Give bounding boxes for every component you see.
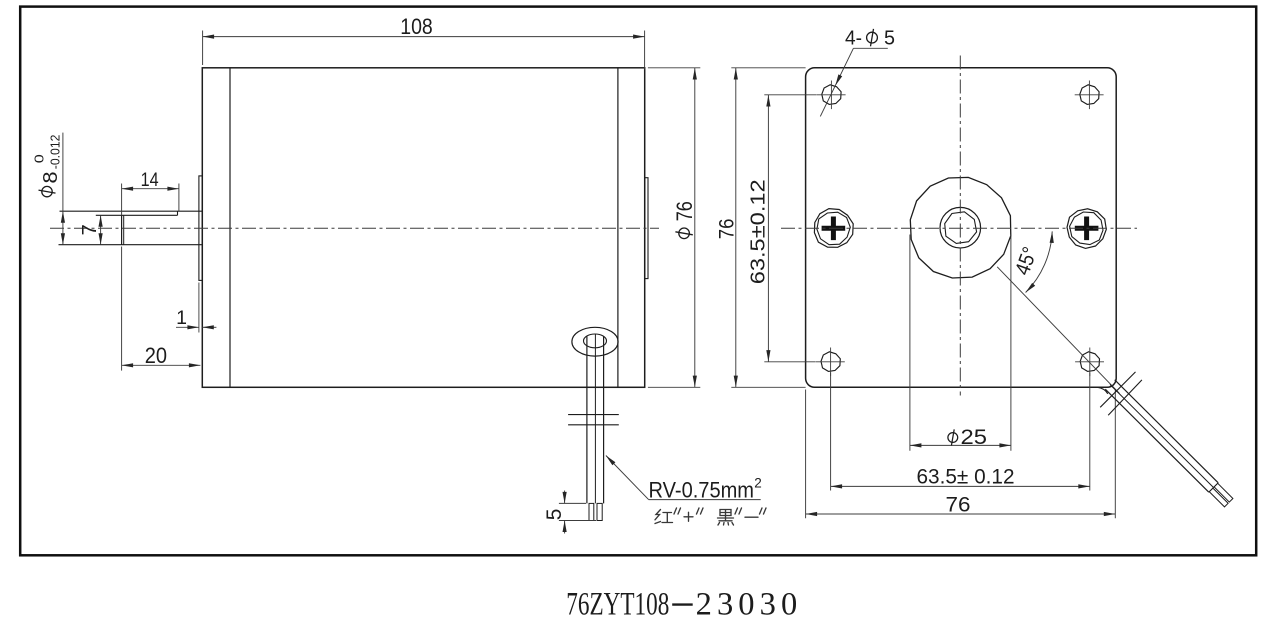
dimension 76 horizontal xyxy=(805,390,807,519)
dimension phi8 tolerance xyxy=(62,133,64,245)
svg-text:-0.012: -0.012 xyxy=(49,135,63,170)
dimension 76 vertical xyxy=(731,67,805,69)
svg-text:63.5±0.12: 63.5±0.12 xyxy=(746,179,769,284)
svg-text:5: 5 xyxy=(543,509,566,521)
svg-text:76: 76 xyxy=(946,494,971,517)
left wire tip xyxy=(589,503,594,520)
dimension 7 xyxy=(100,215,102,244)
dimension 108 xyxy=(202,31,204,66)
wire grommet inner ellipse xyxy=(584,334,607,348)
cable break mark upper xyxy=(568,414,619,416)
cable break mark lower xyxy=(568,424,619,426)
front end-cap joint line xyxy=(229,68,231,388)
dimension phi25 xyxy=(910,444,1011,446)
dimension 14 xyxy=(121,184,123,216)
mounting hole top-right xyxy=(1075,81,1104,110)
45 degree arc xyxy=(1026,231,1053,292)
phillips screw right (U2) xyxy=(1067,209,1106,249)
wire tips (right view) xyxy=(1214,483,1233,502)
svg-text:8: 8 xyxy=(40,172,62,184)
dimension 63.5 +/- 0.12 vertical xyxy=(764,94,816,96)
label red + black - (hand-drawn hanzi) xyxy=(655,508,766,525)
dimension 63.5 +/- 0.12 horizontal xyxy=(830,373,832,491)
svg-text:76: 76 xyxy=(672,201,697,221)
mounting face (front view) square xyxy=(806,68,1117,388)
45 degree leader line xyxy=(997,267,1119,394)
mounting hole bottom-left xyxy=(816,348,845,377)
phillips screw left (U1) xyxy=(814,209,853,248)
svg-text:23030: 23030 xyxy=(696,586,798,622)
horizontal centerline left view xyxy=(50,227,659,229)
svg-text:5: 5 xyxy=(884,26,895,49)
svg-text:14: 14 xyxy=(141,169,159,191)
svg-text:1: 1 xyxy=(176,307,187,329)
cable middle line xyxy=(594,334,596,503)
shaft flat top line / 7 extension xyxy=(96,214,178,216)
rear end-cap joint line xyxy=(617,68,619,388)
svg-text:RV-0.75mm: RV-0.75mm xyxy=(649,477,755,502)
label 4-phi5 with leader xyxy=(853,47,887,49)
svg-text:76ZYT108: 76ZYT108 xyxy=(566,586,669,622)
svg-text:2: 2 xyxy=(754,476,762,491)
mounting hole bottom-right xyxy=(1075,348,1104,377)
svg-text:25: 25 xyxy=(961,426,988,449)
wire grommet outer ellipse xyxy=(572,327,618,356)
svg-text:7: 7 xyxy=(79,224,101,235)
svg-text:20: 20 xyxy=(145,343,167,368)
svg-text:108: 108 xyxy=(400,14,433,39)
svg-text:4-: 4- xyxy=(845,26,862,49)
cable left edge xyxy=(586,337,588,504)
rear cover plate xyxy=(645,178,648,279)
svg-text:76: 76 xyxy=(714,219,738,240)
motor body (side view) xyxy=(202,68,644,388)
horizontal centerline right view xyxy=(781,227,1137,229)
svg-text:0: 0 xyxy=(33,154,47,163)
shaft upper line / phi8 extension xyxy=(60,210,203,212)
right wire tip xyxy=(597,503,602,520)
cable right edge xyxy=(603,337,605,504)
shaft tip edge xyxy=(121,215,123,244)
dimension 1 (flange thickness) xyxy=(198,283,200,333)
leader wire specification xyxy=(606,456,649,500)
mounting hole top-left xyxy=(817,81,846,110)
cable bundle (right view) xyxy=(1098,380,1219,492)
svg-text:63.5± 0.12: 63.5± 0.12 xyxy=(917,465,1015,488)
cable break marks (right view) xyxy=(1100,372,1135,407)
shaft tip chamfer line xyxy=(123,215,125,244)
front flange plate xyxy=(199,176,202,281)
dimension 20 xyxy=(121,247,123,371)
shaft bottom line / phi8 extension xyxy=(59,244,203,246)
shaft flat step xyxy=(177,211,179,215)
dimension 5 (wire tip length) xyxy=(559,502,586,504)
dimension phi76 xyxy=(648,67,700,69)
boss tangent / phi25 extension lines xyxy=(909,235,911,451)
center boss circle phi25 xyxy=(910,177,1011,278)
vertical centerline right view xyxy=(959,56,961,396)
